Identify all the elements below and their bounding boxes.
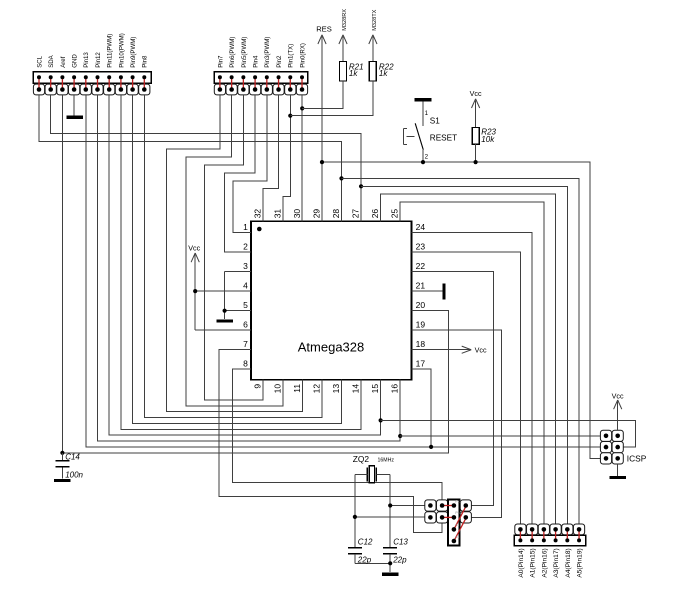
svg-text:A0(Pin14): A0(Pin14) bbox=[518, 548, 525, 577]
U1 bottom pin numbers 9-16 bbox=[253, 384, 400, 394]
red link strip pin4 to ADC6 pad bbox=[454, 518, 466, 541]
node junction C13/crystal-right bbox=[388, 503, 392, 507]
svg-text:4: 4 bbox=[243, 281, 248, 291]
IC U1 Atmega328 body bbox=[251, 221, 412, 379]
U1 left pin numbers 1-8 bbox=[243, 222, 248, 369]
svg-text:17: 17 bbox=[416, 359, 426, 369]
J1 pin Pin13 bbox=[80, 52, 91, 95]
power Vcc arrow above ICSP bbox=[612, 391, 624, 430]
wire XTAL1 chip pin7 to jumper pad row2 bbox=[219, 350, 442, 533]
jumper strip pin2 pad bbox=[437, 512, 448, 523]
wire Pin2 net J2 Pin2 to chip pin32 bbox=[263, 95, 278, 221]
svg-text:Pin8: Pin8 bbox=[142, 55, 149, 68]
svg-text:2: 2 bbox=[243, 242, 248, 252]
svg-text:SDA: SDA bbox=[48, 54, 55, 67]
svg-text:25: 25 bbox=[390, 209, 400, 219]
svg-text:Pin9(PWM): Pin9(PWM) bbox=[130, 37, 137, 68]
connector ICSP 2x3 header bbox=[600, 430, 646, 464]
wire Pin6 net J2 Pin6 around to chip pin10 bbox=[186, 95, 283, 406]
J2 pin Pin3(PWM) bbox=[261, 37, 272, 95]
J2 pin Pin4 bbox=[249, 55, 260, 95]
svg-text:Vcc: Vcc bbox=[475, 345, 487, 354]
svg-text:9: 9 bbox=[253, 384, 263, 389]
svg-text:Vcc: Vcc bbox=[188, 243, 200, 252]
J1 pin Pin9(PWM) bbox=[127, 37, 138, 95]
J1 pin Pin10(PWM) bbox=[115, 33, 126, 95]
J1 pin GND bbox=[69, 54, 80, 95]
svg-text:1k: 1k bbox=[379, 69, 388, 78]
svg-text:26: 26 bbox=[370, 209, 380, 219]
signal arrow RES bbox=[316, 24, 332, 162]
wire chip pin21 to ground bbox=[412, 290, 443, 292]
J4 pin A4(Pin18) bbox=[562, 524, 573, 578]
svg-text:22p: 22p bbox=[357, 555, 372, 564]
svg-text:3: 3 bbox=[243, 261, 248, 271]
svg-text:ICSP: ICSP bbox=[627, 454, 647, 464]
J4 pin A3(Pin17) bbox=[550, 524, 561, 578]
wire Pin12/MISO net J1 Pin12 around to chip pin16 bbox=[98, 95, 401, 441]
wire Pin11/MOSI net J1 Pin11 around to chip pin15 bbox=[109, 95, 380, 435]
svg-text:Vcc: Vcc bbox=[470, 89, 482, 98]
svg-text:16MHz: 16MHz bbox=[378, 458, 395, 464]
wire Vcc to chip pin6 bbox=[195, 329, 251, 331]
resistor R23 bbox=[472, 128, 496, 145]
wire GND net chip pins 3+5 bbox=[225, 272, 251, 320]
svg-text:10: 10 bbox=[272, 384, 282, 394]
svg-text:RESET: RESET bbox=[430, 134, 457, 143]
J2 pin Pin7 bbox=[214, 55, 225, 95]
red link strip pin1 to pad bbox=[442, 505, 454, 507]
node junction C12/C13 ground bbox=[388, 561, 392, 565]
svg-text:Pin13: Pin13 bbox=[83, 52, 90, 68]
J2 pin Pin6(PWM) bbox=[226, 37, 237, 95]
svg-text:21: 21 bbox=[416, 281, 426, 291]
svg-text:M328RX: M328RX bbox=[342, 9, 348, 31]
jumper strip pin1 pad bbox=[437, 500, 448, 511]
svg-text:M328TX: M328TX bbox=[372, 9, 378, 30]
wire Pin1(TX) net J2 to chip pin31 bbox=[283, 95, 291, 221]
wire Vcc to chip pin4 bbox=[195, 290, 251, 292]
svg-text:27: 27 bbox=[351, 209, 361, 219]
wire A2 net chip pin25 to A-header bbox=[400, 202, 544, 524]
svg-text:Pin12: Pin12 bbox=[95, 52, 102, 68]
svg-text:100n: 100n bbox=[65, 470, 83, 479]
wire R23 to RESET net bbox=[475, 144, 477, 162]
power Vcc arrow at chip pin18 bbox=[412, 345, 487, 354]
node junction RX/R21 bbox=[300, 106, 304, 110]
wire ADC7 net chip pin22 to jumper pad bbox=[412, 272, 494, 506]
J4 pin A5(Pin19) bbox=[573, 524, 584, 578]
connector J4 analog header outline bbox=[514, 535, 585, 546]
svg-text:GND: GND bbox=[72, 54, 79, 68]
svg-text:Pin2: Pin2 bbox=[276, 55, 283, 68]
svg-text:6: 6 bbox=[243, 320, 248, 330]
svg-text:10k: 10k bbox=[481, 135, 495, 144]
svg-text:A4(Pin18): A4(Pin18) bbox=[565, 548, 572, 577]
svg-text:20: 20 bbox=[416, 300, 426, 310]
red link strip pin3 to ADC7 pad bbox=[454, 507, 466, 530]
svg-text:SCL: SCL bbox=[36, 55, 43, 67]
node junction S1 pin2 on RESET net bbox=[421, 160, 425, 164]
svg-text:ZQ2: ZQ2 bbox=[353, 454, 370, 464]
jumper XTAL2/crystal pad bbox=[425, 500, 436, 511]
wire Pin13/SCK net J1 Pin13 around to chip pin17 and ICSP SCK bbox=[86, 95, 601, 447]
wire A3 net chip pin26 to A-header bbox=[381, 194, 556, 523]
node junction AREF / C14 bbox=[60, 451, 64, 455]
svg-text:7: 7 bbox=[243, 339, 248, 349]
crystal ZQ2 bbox=[353, 454, 395, 483]
wire SCL net J1 to chip pin28 bbox=[39, 95, 341, 221]
wire Pin7 net J2 Pin7 around to chip pin11 bbox=[166, 95, 302, 412]
ground symbol below ICSP bbox=[609, 464, 626, 477]
wire chip pin17 branch to SCK net bbox=[412, 369, 432, 447]
svg-text:A2(Pin16): A2(Pin16) bbox=[541, 548, 548, 577]
svg-text:A5(Pin19): A5(Pin19) bbox=[577, 548, 584, 577]
wire MISO branch to ICSP bbox=[400, 435, 600, 437]
signal arrow M328RX bbox=[339, 9, 348, 62]
J1 pin Pin8 bbox=[139, 55, 150, 95]
signal arrow M328TX bbox=[369, 9, 378, 61]
node junction SCL/A5 at pin28 bbox=[339, 176, 343, 180]
svg-text:Aref: Aref bbox=[60, 56, 67, 67]
ground symbol at chip pins 3/5 bbox=[216, 319, 233, 322]
wire Pin8 net J1 Pin8 around to chip pin12 bbox=[144, 95, 322, 418]
node junction SCK at pin17 drop bbox=[429, 445, 433, 449]
ground symbol below J1 GND pad bbox=[67, 95, 84, 117]
node junction R23 on RESET net bbox=[474, 160, 478, 164]
svg-text:1: 1 bbox=[243, 222, 248, 232]
node junction RESET at pin29 bbox=[320, 160, 324, 164]
svg-text:18: 18 bbox=[416, 339, 426, 349]
wire Pin9 net J1 Pin9 around to chip pin13 bbox=[133, 95, 342, 423]
svg-text:C12: C12 bbox=[358, 537, 373, 546]
capacitor C14 bbox=[55, 453, 83, 480]
ground symbol below C14 bbox=[54, 479, 71, 482]
svg-text:28: 28 bbox=[331, 209, 341, 219]
J2 pin Pin5(PWM) bbox=[238, 37, 249, 95]
jumper ADC6 pad bbox=[460, 512, 471, 523]
J2 pin Pin0(RX) bbox=[296, 43, 307, 95]
wire ADC6 net chip pin19 to jumper pad bbox=[412, 330, 502, 517]
J4 pin A0(Pin14) bbox=[515, 524, 526, 578]
node junction Vcc pin4 bbox=[193, 289, 197, 293]
J1 pin SDA bbox=[45, 54, 56, 95]
svg-text:Pin4: Pin4 bbox=[252, 55, 259, 68]
svg-text:5: 5 bbox=[243, 300, 248, 310]
jumper pad dots bbox=[428, 503, 468, 520]
J2 pin Pin2 bbox=[273, 55, 284, 95]
svg-text:13: 13 bbox=[331, 384, 341, 394]
JP3 strip pin 2 bbox=[452, 511, 462, 520]
svg-text:32: 32 bbox=[253, 209, 263, 219]
node junction pin5 GND bbox=[223, 309, 227, 313]
U1 top pin numbers 32-25 bbox=[253, 209, 400, 219]
svg-text:Pin3(PWM): Pin3(PWM) bbox=[264, 37, 271, 68]
svg-text:Pin10(PWM): Pin10(PWM) bbox=[118, 33, 125, 68]
svg-text:A1(Pin15): A1(Pin15) bbox=[530, 548, 537, 577]
U1 pin-1 marker dot bbox=[257, 227, 262, 232]
wire A1 net chip pin24 to A-header bbox=[412, 233, 533, 524]
svg-text:16: 16 bbox=[390, 384, 400, 394]
wire Pin4 net J2 Pin4 to chip pin2 bbox=[225, 95, 255, 252]
J1 pin Pin11(PWM) bbox=[104, 34, 115, 95]
J4 pin A1(Pin15) bbox=[527, 524, 538, 578]
svg-text:S1: S1 bbox=[430, 117, 440, 126]
svg-text:x4: x4 bbox=[455, 535, 459, 539]
svg-text:24: 24 bbox=[416, 222, 426, 232]
wire R22 to TX net bbox=[290, 81, 373, 116]
svg-text:Pin5(PWM): Pin5(PWM) bbox=[241, 37, 248, 68]
svg-text:31: 31 bbox=[272, 209, 282, 219]
svg-text:C13: C13 bbox=[393, 537, 408, 546]
power Vcc arrow above R23 bbox=[470, 89, 482, 128]
svg-text:30: 30 bbox=[292, 209, 302, 219]
wire R21 to RX net bbox=[302, 81, 343, 108]
wire Pin5 net J2 Pin5 around to chip pin9 bbox=[205, 95, 264, 400]
resistor R21 bbox=[340, 62, 364, 82]
svg-text:C14: C14 bbox=[65, 453, 80, 462]
connector J1 header outline (SCL..Pin8) bbox=[33, 72, 151, 84]
svg-text:Px2: Px2 bbox=[455, 511, 461, 515]
node junction MISO branch at pin16 bbox=[398, 434, 402, 438]
svg-text:23: 23 bbox=[416, 242, 426, 252]
J2 pin Pin1(TX) bbox=[285, 44, 296, 95]
wire Pin0(RX) net J2 to chip pin30 bbox=[301, 95, 303, 221]
U1 right pin numbers 24-17 bbox=[416, 222, 426, 369]
svg-text:2: 2 bbox=[425, 154, 429, 161]
J1 pin Aref bbox=[57, 56, 68, 95]
svg-text:15: 15 bbox=[370, 384, 380, 394]
node junction TX/R22 bbox=[288, 114, 292, 118]
wire A0 net chip pin23 to A-header bbox=[412, 252, 521, 523]
svg-text:Pin1(TX): Pin1(TX) bbox=[288, 44, 295, 68]
wire XTAL2 chip pin8 to jumper pad row1 bbox=[232, 369, 442, 500]
svg-text:Pin11(PWM): Pin11(PWM) bbox=[107, 34, 114, 68]
connector JP3 4-pin strip outline bbox=[448, 499, 460, 545]
svg-text:RES: RES bbox=[316, 24, 332, 33]
svg-text:14: 14 bbox=[351, 384, 361, 394]
svg-text:Pin7: Pin7 bbox=[217, 55, 224, 68]
svg-text:8: 8 bbox=[243, 359, 248, 369]
svg-text:Vcc: Vcc bbox=[612, 391, 624, 400]
svg-text:Pin0(RX): Pin0(RX) bbox=[299, 43, 306, 68]
svg-text:Pin6(PWM): Pin6(PWM) bbox=[229, 37, 236, 68]
JP3 strip pin 4 bbox=[452, 535, 460, 544]
wire A5 net pin28 branch to A-header bbox=[341, 178, 579, 523]
svg-text:12: 12 bbox=[311, 384, 321, 394]
svg-text:1k: 1k bbox=[349, 69, 358, 78]
wire crystal right to C13 and jumper pad bbox=[390, 474, 425, 547]
wire A4 net pin27 branch to A-header bbox=[361, 186, 567, 523]
wire RESET net to chip pin29 bbox=[321, 162, 323, 221]
wire SDA net J1 to chip pin27 bbox=[51, 95, 361, 221]
J1 pin Pin12 bbox=[92, 52, 103, 95]
jumper XTAL1/crystal pad bbox=[425, 512, 436, 523]
switch S1 RESET pushbutton bbox=[404, 100, 458, 162]
svg-text:x3: x3 bbox=[455, 523, 459, 527]
svg-text:11: 11 bbox=[292, 384, 302, 393]
capacitor C13 bbox=[383, 537, 408, 572]
ground symbol below C13 bbox=[382, 573, 399, 576]
svg-text:A3(Pin17): A3(Pin17) bbox=[553, 548, 560, 577]
wire MOSI branch over ICSP to pad bbox=[381, 420, 636, 447]
jumper ADC7 pad bbox=[460, 500, 471, 511]
resistor R22 bbox=[369, 62, 394, 82]
ground symbol at chip pin21 (vertical bar) bbox=[443, 283, 446, 299]
wire AREF net J1 Aref to chip pin20 bbox=[62, 95, 448, 453]
node junction C12/crystal-left bbox=[353, 515, 357, 519]
svg-text:1: 1 bbox=[425, 110, 429, 117]
capacitor C12 bbox=[348, 537, 390, 564]
JP3 strip pin 1 bbox=[452, 499, 462, 508]
svg-text:Px1: Px1 bbox=[455, 499, 461, 503]
wire Pin10 net J1 Pin10 around to chip pin14 bbox=[121, 95, 361, 429]
svg-text:Atmega328: Atmega328 bbox=[298, 340, 365, 355]
svg-text:19: 19 bbox=[416, 320, 426, 330]
J1 pin SCL bbox=[33, 55, 44, 95]
wire crystal left to C12 and jumper pad bbox=[355, 474, 425, 547]
svg-text:29: 29 bbox=[311, 209, 321, 219]
node junction MOSI branch at pin15 bbox=[379, 418, 383, 422]
svg-text:22: 22 bbox=[416, 261, 426, 271]
connector J2 header outline (Pin7..Pin0) bbox=[214, 72, 307, 84]
JP3 strip pin 3 bbox=[452, 523, 460, 532]
wire RESET net horizontal to S1/R23 and ICSP bbox=[322, 162, 601, 458]
node junction SDA/A4 at pin27 bbox=[359, 184, 363, 188]
wire Pin3 net J2 Pin3 to chip pin1 bbox=[233, 95, 267, 233]
red link strip pin2 to pad bbox=[442, 516, 454, 518]
svg-text:22p: 22p bbox=[392, 555, 407, 564]
power Vcc arrow left of chip bbox=[188, 243, 200, 330]
J4 pin A2(Pin16) bbox=[538, 524, 549, 578]
